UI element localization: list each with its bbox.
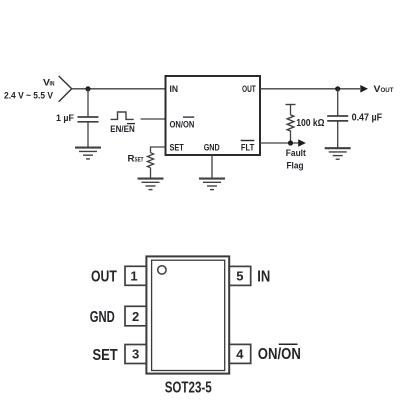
pulse symbol EN: [111, 112, 134, 119]
ground (C1): [75, 148, 101, 159]
pin 3 box: [125, 345, 146, 364]
svg-text:Flag: Flag: [287, 161, 304, 172]
op chip U1: [166, 76, 261, 155]
svg-text:2: 2: [132, 309, 139, 324]
svg-text:ON/ON: ON/ON: [170, 120, 195, 131]
wire SET pin: [151, 147, 166, 153]
svg-text:ON/ON: ON/ON: [258, 346, 301, 363]
wire pulse to ON pin: [141, 118, 166, 120]
svg-text:1: 1: [130, 269, 137, 284]
wire R1 to FLT node: [290, 132, 292, 143]
wire junction to C2: [337, 89, 339, 116]
wire C1 to ground: [87, 122, 89, 148]
svg-text:OUT: OUT: [91, 268, 117, 285]
capacitor C2 0.47uF: [327, 115, 348, 117]
ground (C2): [325, 148, 351, 159]
label Fault Flag: [286, 148, 307, 172]
Fault Flag arrowhead: [298, 139, 306, 147]
label RSET: [128, 153, 144, 164]
svg-text:SET: SET: [170, 142, 184, 153]
svg-text:GND: GND: [90, 309, 115, 326]
pin label ON/ON: [170, 117, 195, 131]
svg-text:4: 4: [236, 347, 244, 362]
svg-text:Fault: Fault: [286, 148, 307, 159]
svg-text:GND: GND: [204, 142, 220, 153]
pin 1 box: [125, 266, 146, 285]
wire OUT to VOUT: [260, 88, 360, 90]
svg-text:SET: SET: [93, 347, 118, 364]
capacitor C1 1uF: [78, 116, 99, 118]
pin 5 box: [229, 266, 251, 285]
wire junction down to C1: [87, 89, 89, 117]
wire C2 to ground: [337, 121, 339, 148]
svg-text:OUT: OUT: [242, 84, 256, 95]
wire VIN to chip IN: [72, 88, 166, 90]
package outline outer: [146, 256, 229, 373]
wire GND pin down: [211, 155, 213, 178]
pin label FLT: [241, 141, 255, 154]
svg-text:100 kΩ: 100 kΩ: [296, 118, 324, 129]
wire bar to R1: [290, 105, 292, 115]
resistor R1 100k pullup terminal bar: [286, 104, 296, 106]
package outline inner: [152, 260, 225, 370]
VOUT arrowhead: [360, 85, 368, 93]
label VIN: [43, 78, 55, 89]
input chevron VIN: [59, 76, 72, 102]
svg-text:5: 5: [236, 269, 243, 284]
label EN/EN: [110, 124, 135, 135]
node input junction: [85, 86, 90, 91]
pin 2 box: [125, 306, 146, 326]
svg-text:IN: IN: [50, 81, 55, 88]
svg-text:2.4 V ~ 5.5 V: 2.4 V ~ 5.5 V: [4, 91, 54, 102]
svg-text:IN: IN: [170, 84, 179, 95]
pin1 marker circle: [158, 266, 166, 274]
pin 4 box: [229, 344, 251, 363]
wire FLT to arrow: [260, 142, 299, 144]
wire RSET to ground: [150, 168, 152, 179]
svg-text:3: 3: [132, 347, 139, 362]
svg-text:SET: SET: [135, 156, 144, 163]
svg-text:1 µF: 1 µF: [56, 113, 74, 124]
svg-text:0.47 µF: 0.47 µF: [352, 113, 383, 124]
svg-text:OUT: OUT: [381, 87, 394, 94]
svg-text:IN: IN: [257, 269, 270, 286]
svg-text:SOT23-5: SOT23-5: [165, 380, 212, 397]
ground (RSET): [138, 179, 164, 190]
label ON/ON (pin4): [258, 344, 301, 363]
label VOUT: [374, 84, 394, 95]
node output junction: [335, 86, 340, 91]
svg-text:EN/EN: EN/EN: [110, 124, 135, 135]
ground (chip GND): [199, 179, 225, 190]
node FLT junction: [288, 140, 293, 145]
svg-text:FLT: FLT: [241, 142, 254, 153]
resistor R1 100k: [287, 115, 294, 132]
resistor RSET: [147, 153, 153, 168]
